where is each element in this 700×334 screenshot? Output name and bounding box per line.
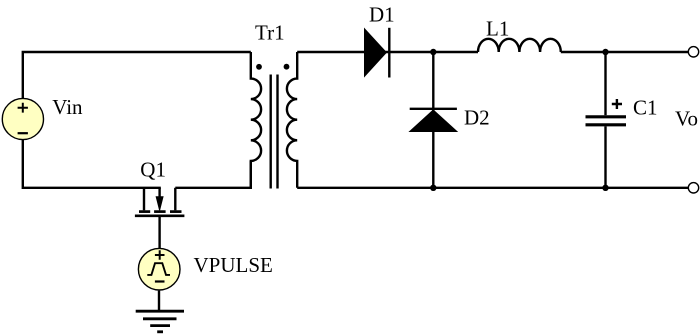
wire D1 cathode to L1 <box>389 51 478 53</box>
svg-text:C1: C1 <box>633 96 658 120</box>
svg-text:D2: D2 <box>464 106 490 130</box>
transformer phase dot secondary <box>284 64 290 70</box>
wire Q1 drain to transformer primary bottom <box>175 161 251 188</box>
wire L1 to top terminal <box>561 51 689 53</box>
node junction D1/D2/L1 <box>430 49 436 55</box>
ground <box>136 311 184 332</box>
terminal Vo+ <box>688 47 698 57</box>
wire Vin bottom to Q1 source <box>23 140 161 188</box>
transformer Tr1 primary winding <box>251 52 261 188</box>
svg-text:L1: L1 <box>486 17 509 41</box>
wire Q1 gate to VPULSE <box>158 216 160 248</box>
wire secondary bottom rail <box>297 187 688 189</box>
svg-text:Vin: Vin <box>52 95 83 119</box>
wire C1 bottom plate to bottom rail <box>604 126 606 187</box>
source VPULSE <box>138 248 180 290</box>
capacitor C1 <box>586 99 627 125</box>
node D2 anode bottom <box>430 185 436 191</box>
svg-text:Q1: Q1 <box>140 158 166 182</box>
node C1 top <box>602 49 608 55</box>
wire VPULSE to ground <box>158 291 160 312</box>
diode D2 <box>410 109 457 132</box>
voltage source Vin <box>2 98 43 139</box>
wire secondary top rail to D1 <box>297 51 389 53</box>
svg-text:Tr1: Tr1 <box>255 21 285 45</box>
transformer phase dot primary <box>256 64 262 70</box>
wire top-left rail from Vin to transformer primary <box>23 52 251 99</box>
wire node down to D2 and to bottom rail <box>432 52 434 188</box>
svg-text:VPULSE: VPULSE <box>194 253 273 277</box>
terminal Vo- <box>688 183 698 193</box>
svg-text:D1: D1 <box>369 3 395 27</box>
inductor L1 <box>478 39 561 52</box>
svg-text:Vo: Vo <box>675 107 698 131</box>
transistor Q1 (NMOS) <box>135 188 185 216</box>
transformer Tr1 secondary winding <box>287 52 297 188</box>
wire node to C1 top plate <box>604 52 606 115</box>
diode D1 <box>365 28 390 78</box>
node C1 bottom <box>602 185 608 191</box>
transformer Tr1 core <box>271 75 278 189</box>
